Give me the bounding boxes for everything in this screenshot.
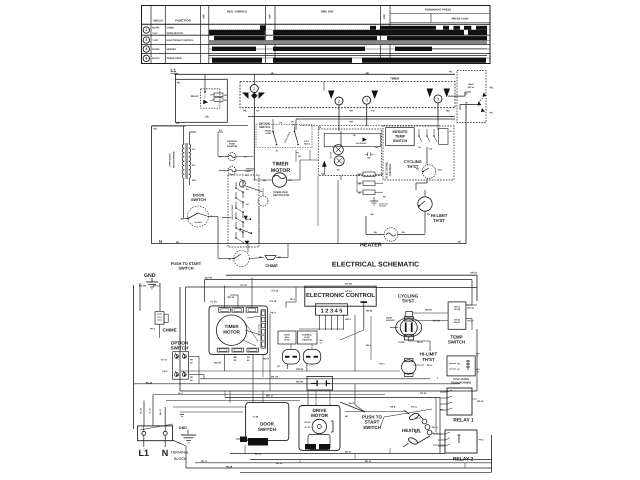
svg-text:HL: HL <box>271 72 275 75</box>
svg-text:SWITCH: SWITCH <box>258 427 277 432</box>
svg-text:PU: PU <box>440 409 443 412</box>
svg-text:GY: GY <box>219 156 223 159</box>
svg-text:RD 11: RD 11 <box>201 460 208 463</box>
svg-text:DOOR: DOOR <box>260 422 274 427</box>
svg-text:CHIME: CHIME <box>163 328 177 333</box>
svg-text:PERMANENT PRESS: PERMANENT PRESS <box>425 9 451 12</box>
svg-text:3: 3 <box>145 47 147 51</box>
svg-text:OR 6: OR 6 <box>390 406 396 409</box>
svg-text:DRIVE MOTOR: DRIVE MOTOR <box>167 32 184 35</box>
svg-text:WH 17: WH 17 <box>159 408 162 415</box>
svg-text:YL 50: YL 50 <box>210 301 217 304</box>
svg-text:BU 39: BU 39 <box>276 462 283 465</box>
svg-text:CIRCUIT: CIRCUIT <box>153 19 164 22</box>
svg-text:BK 33: BK 33 <box>415 431 422 434</box>
svg-text:1M 115VAC: 1M 115VAC <box>356 142 367 145</box>
svg-text:BK: BK <box>366 72 370 75</box>
svg-text:GY: GY <box>256 110 260 113</box>
svg-text:PK: PK <box>190 358 193 361</box>
svg-text:OR 14: OR 14 <box>227 296 235 299</box>
svg-text:OFF: OFF <box>383 14 386 19</box>
svg-text:FUSE: FUSE <box>284 339 290 342</box>
svg-text:REGUL: REGUL <box>304 142 311 145</box>
svg-text:BK 33: BK 33 <box>415 417 422 420</box>
svg-text:WH 11: WH 11 <box>411 405 418 408</box>
svg-text:CONTROL: CONTROL <box>389 163 392 176</box>
svg-text:ELECTRONIC CONTROL: ELECTRONIC CONTROL <box>306 292 375 299</box>
svg-text:RELAY: RELAY <box>468 86 475 89</box>
svg-text:PK: PK <box>490 112 494 115</box>
svg-text:WH: WH <box>192 179 196 182</box>
svg-text:GY 22: GY 22 <box>305 426 312 429</box>
svg-text:BR-GY: BR-GY <box>454 321 461 324</box>
svg-text:SWITCH: SWITCH <box>363 425 381 430</box>
svg-text:RD: RD <box>154 128 158 131</box>
svg-text:PU 27: PU 27 <box>417 341 424 344</box>
svg-text:RD 11: RD 11 <box>153 284 160 287</box>
svg-text:OFF: OFF <box>268 14 271 19</box>
svg-text:HEATER: HEATER <box>167 48 177 51</box>
svg-text:PK: PK <box>190 376 193 379</box>
svg-text:GR 4: GR 4 <box>345 318 351 321</box>
svg-text:THERMAL: THERMAL <box>227 140 238 143</box>
svg-text:WH 17: WH 17 <box>349 402 356 405</box>
svg-text:BK: BK <box>371 213 375 216</box>
svg-text:RD: RD <box>176 241 180 244</box>
svg-text:GR 44: GR 44 <box>477 400 484 403</box>
svg-text:GY 47: GY 47 <box>240 284 247 287</box>
svg-text:11: 11 <box>320 342 322 345</box>
svg-text:GY 26: GY 26 <box>272 289 279 292</box>
svg-text:PU: PU <box>371 110 375 113</box>
svg-text:TIMER: TIMER <box>272 162 288 168</box>
svg-text:GY: GY <box>219 129 223 132</box>
svg-text:TIMER: TIMER <box>390 77 400 81</box>
svg-text:OR: OR <box>349 121 353 124</box>
svg-text:RD 11: RD 11 <box>432 426 438 429</box>
svg-text:YL 50: YL 50 <box>252 416 259 419</box>
svg-text:(HEATER): (HEATER) <box>227 145 238 148</box>
svg-text:GY 12: GY 12 <box>420 392 427 395</box>
svg-text:HEATER: HEATER <box>360 243 382 249</box>
svg-text:(HEATER): (HEATER) <box>302 339 312 342</box>
svg-text:MOTOR: MOTOR <box>311 413 329 418</box>
svg-text:ELECTRONIC: ELECTRONIC <box>386 161 389 178</box>
svg-text:BU-PK: BU-PK <box>152 27 160 30</box>
svg-text:1 2 3 4 5: 1 2 3 4 5 <box>321 309 343 315</box>
svg-text:TIMER: TIMER <box>225 324 240 329</box>
svg-text:RD 62: RD 62 <box>425 308 432 311</box>
svg-text:GND: GND <box>144 273 156 279</box>
svg-text:BK 33: BK 33 <box>365 460 372 463</box>
svg-text:BK 29: BK 29 <box>271 376 278 379</box>
svg-text:OR: OR <box>349 110 353 113</box>
svg-text:PU 27: PU 27 <box>468 320 475 323</box>
svg-text:GY: GY <box>244 156 248 159</box>
svg-text:TEMP: TEMP <box>395 135 406 139</box>
svg-text:ELECTRICAL SCHEMATIC: ELECTRICAL SCHEMATIC <box>332 262 419 269</box>
svg-text:PROTECTOR: PROTECTOR <box>273 194 289 197</box>
svg-text:CYCLING: CYCLING <box>398 293 419 298</box>
svg-text:YE-OR: YE-OR <box>454 308 461 311</box>
svg-text:SWITCH: SWITCH <box>393 139 408 143</box>
svg-text:BK 33: BK 33 <box>345 451 352 454</box>
svg-text:GND: GND <box>179 426 187 430</box>
svg-text:PK 8: PK 8 <box>479 439 485 442</box>
svg-text:N: N <box>159 239 162 244</box>
svg-text:TERMINAL: TERMINAL <box>171 451 190 455</box>
svg-text:PRESS CARE: PRESS CARE <box>167 57 182 60</box>
svg-text:PU: PU <box>427 213 430 216</box>
svg-text:TH'ST: TH'ST <box>433 218 445 223</box>
svg-text:TIME DRY: TIME DRY <box>320 10 333 14</box>
svg-text:YL 43: YL 43 <box>149 407 152 413</box>
svg-text:RD: RD <box>458 241 462 244</box>
svg-text:GY: GY <box>277 365 281 368</box>
svg-text:PRESS CARE: PRESS CARE <box>452 18 469 21</box>
svg-text:BU: BU <box>446 110 450 113</box>
svg-text:TH'ST: TH'ST <box>402 299 415 304</box>
svg-text:PK 8: PK 8 <box>150 328 156 331</box>
svg-text:L1: L1 <box>139 448 150 458</box>
svg-text:DOOR: DOOR <box>193 193 205 197</box>
svg-text:INFINITE: INFINITE <box>393 130 409 134</box>
svg-text:GY 12: GY 12 <box>270 300 277 303</box>
svg-text:WH: WH <box>180 218 184 221</box>
svg-text:RELAY: RELAY <box>191 95 199 98</box>
svg-text:OR 22: OR 22 <box>296 368 304 371</box>
svg-text:Y-GY: Y-GY <box>152 32 158 35</box>
svg-text:BK: BK <box>289 179 293 182</box>
svg-text:GY 26: GY 26 <box>345 283 352 286</box>
svg-text:SENSOR: SENSOR <box>379 205 387 208</box>
svg-text:RD 8: RD 8 <box>427 364 433 367</box>
svg-text:TH'ST: TH'ST <box>422 357 435 362</box>
svg-text:CHIME: CHIME <box>265 264 278 268</box>
svg-text:SWITCH: SWITCH <box>171 346 189 351</box>
svg-text:RD 96: RD 96 <box>366 310 373 313</box>
svg-text:BU 44: BU 44 <box>214 362 221 365</box>
svg-text:PK 9: PK 9 <box>163 370 169 373</box>
svg-text:SWITCH: SWITCH <box>259 125 270 129</box>
svg-text:WH 38: WH 38 <box>433 320 441 323</box>
svg-text:GY 47: GY 47 <box>161 358 168 361</box>
svg-text:RD 20: RD 20 <box>140 407 143 414</box>
svg-text:PK 9: PK 9 <box>270 312 276 315</box>
svg-text:2: 2 <box>145 38 147 42</box>
svg-text:PK 46: PK 46 <box>226 465 233 468</box>
svg-text:RD: RD <box>263 179 267 182</box>
svg-text:PK: PK <box>318 126 322 129</box>
svg-text:TAN: TAN <box>438 169 443 172</box>
svg-text:SENSOR: SENSOR <box>386 319 395 322</box>
svg-text:GY: GY <box>245 174 249 177</box>
svg-text:PU: PU <box>292 124 296 127</box>
svg-text:CARE: CARE <box>265 132 271 135</box>
svg-text:HOLD: HOLD <box>468 83 474 86</box>
svg-text:FUSE: FUSE <box>229 142 235 145</box>
svg-text:BU 39: BU 39 <box>255 452 262 455</box>
svg-text:1: 1 <box>145 28 147 32</box>
svg-text:WH: WH <box>374 231 378 234</box>
svg-text:TM: TM <box>353 134 356 137</box>
svg-text:BU 44: BU 44 <box>468 307 475 310</box>
svg-text:PU-BU: PU-BU <box>152 48 160 51</box>
svg-text:GR: GR <box>205 116 209 119</box>
svg-text:RD 20: RD 20 <box>305 421 312 424</box>
svg-text:TRANSFORMER: TRANSFORMER <box>173 151 176 168</box>
svg-text:CLOSED: CLOSED <box>194 221 202 224</box>
svg-text:PU 98: PU 98 <box>398 341 405 344</box>
svg-text:BU 44: BU 44 <box>205 277 212 280</box>
svg-text:BR: BR <box>234 356 238 359</box>
svg-text:BU-PU: BU-PU <box>152 57 160 60</box>
svg-text:RD 9: RD 9 <box>263 358 269 361</box>
svg-text:5M: 5M <box>337 168 340 171</box>
svg-text:SWITCH: SWITCH <box>179 266 194 270</box>
svg-text:REG. FABRICS: REG. FABRICS <box>227 10 247 14</box>
svg-text:PK: PK <box>243 110 247 113</box>
svg-text:PUSH TO START: PUSH TO START <box>171 262 202 266</box>
svg-text:PU: PU <box>177 82 181 85</box>
svg-text:PK 46: PK 46 <box>432 432 438 435</box>
svg-text:RELAY 1: RELAY 1 <box>453 418 474 424</box>
svg-text:OR: OR <box>176 122 180 125</box>
svg-text:4: 4 <box>145 57 147 61</box>
svg-text:GY: GY <box>192 148 196 151</box>
svg-text:PU: PU <box>192 164 195 167</box>
svg-text:RD 36: RD 36 <box>296 380 303 383</box>
svg-text:OR 16: OR 16 <box>470 272 478 275</box>
svg-text:PU: PU <box>490 87 494 90</box>
svg-text:SWITCH: SWITCH <box>191 198 206 202</box>
svg-text:SWITCH: SWITCH <box>448 340 465 345</box>
svg-text:DRIVE: DRIVE <box>312 408 326 413</box>
svg-text:OFF: OFF <box>203 14 206 19</box>
svg-text:MOTOR: MOTOR <box>330 151 333 158</box>
svg-text:BLOCK: BLOCK <box>174 457 187 461</box>
svg-text:VIO 7: VIO 7 <box>379 363 385 366</box>
svg-text:WH 17: WH 17 <box>266 395 274 398</box>
svg-text:PUSH TO START: PUSH TO START <box>231 204 234 220</box>
svg-text:CHIME: CHIME <box>167 27 175 30</box>
svg-text:STEP DOWN: STEP DOWN <box>169 153 172 167</box>
svg-text:N: N <box>162 448 169 458</box>
svg-text:PU: PU <box>247 356 250 359</box>
svg-text:PK 8: PK 8 <box>290 298 296 301</box>
svg-text:MOTOR: MOTOR <box>223 329 240 334</box>
svg-text:Y-OR: Y-OR <box>152 39 158 42</box>
svg-text:PU: PU <box>449 71 453 74</box>
svg-text:ELECTRONIC CONTROL: ELECTRONIC CONTROL <box>167 39 195 42</box>
svg-text:TRANSFORMER: TRANSFORMER <box>451 381 471 384</box>
svg-text:FUNCTION: FUNCTION <box>175 18 191 22</box>
